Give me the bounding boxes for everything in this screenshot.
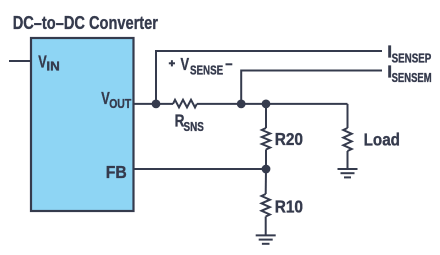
- svg-text:FB: FB: [106, 162, 127, 182]
- label + (VSENSE plus): [169, 60, 175, 66]
- wire: FB feedback: [134, 168, 267, 170]
- net label ISENSEM: [387, 61, 431, 85]
- junction node B (RSNS output sense tap): [237, 100, 246, 109]
- net label ISENSEP: [387, 42, 431, 66]
- svg-text:IN: IN: [46, 59, 59, 74]
- resistor Load: [343, 128, 351, 151]
- pin label FB: [106, 162, 127, 182]
- wire: VIN input lead: [9, 60, 31, 62]
- label VSENSE: [181, 54, 224, 78]
- resistor R10: [262, 194, 270, 217]
- wire: ISENSEM rail: [241, 71, 382, 104]
- label R20: [275, 129, 304, 149]
- junction node D (FB divider tap): [262, 165, 271, 174]
- svg-text:SENSEM: SENSEM: [392, 71, 432, 85]
- svg-text:SENSE: SENSE: [190, 63, 223, 77]
- label RSNS: [175, 111, 204, 134]
- svg-text:Load: Load: [364, 129, 400, 149]
- converter block U1: DC-to-DC Converter: [31, 38, 134, 211]
- label R10: [275, 197, 304, 217]
- wire: node D to R10: [265, 169, 267, 194]
- title: DC-to-DC Converter: [13, 12, 158, 33]
- wire: Load to ground: [347, 151, 349, 169]
- pin label VOUT: [101, 88, 131, 111]
- junction node C (R20 tap): [262, 100, 271, 109]
- svg-text:R10: R10: [275, 197, 304, 217]
- wire: corner to Load: [347, 104, 349, 128]
- label - (VSENSE minus): [226, 63, 233, 65]
- wire: node C to R20: [265, 104, 267, 128]
- svg-text:R20: R20: [275, 129, 304, 149]
- svg-text:DC–to–DC Converter: DC–to–DC Converter: [13, 12, 158, 33]
- svg-text:SENSEP: SENSEP: [392, 51, 432, 65]
- wire: R10 to ground: [265, 217, 267, 236]
- wire: VOUT to RSNS: [134, 103, 174, 105]
- svg-text:SNS: SNS: [184, 120, 204, 134]
- wire: RSNS to load corner: [197, 103, 348, 105]
- junction node A (VOUT sense tap): [152, 100, 161, 109]
- pin label VIN: [38, 52, 60, 74]
- ground (R10): [256, 235, 276, 243]
- resistor RSNS: [173, 100, 197, 108]
- resistor R20: [262, 128, 270, 150]
- wire: ISENSEP rail: [156, 51, 382, 104]
- ground (Load): [338, 169, 358, 177]
- svg-text:OUT: OUT: [109, 96, 131, 111]
- wire: R20 to node D: [265, 150, 267, 170]
- svg-text:V: V: [181, 54, 190, 74]
- label Load: [364, 129, 400, 149]
